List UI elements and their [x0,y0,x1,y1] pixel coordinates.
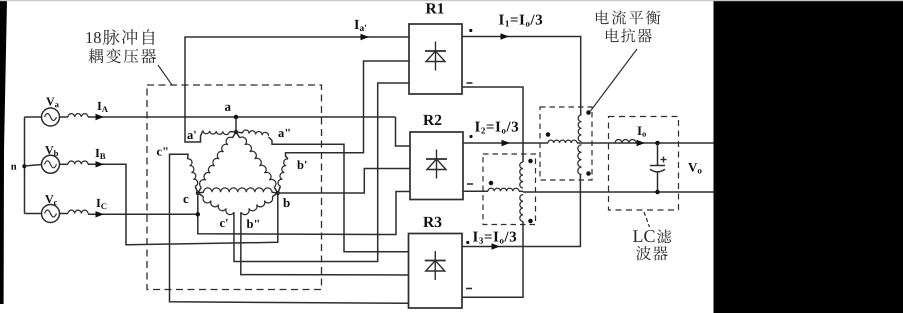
current Io label [637,126,646,136]
current IB label [95,149,105,159]
wire IC phase C to node c [88,213,198,215]
rectifier R1 box with diode [409,24,462,94]
winding delta side a-c [198,132,236,193]
LC filter label line 1 [633,229,671,243]
tap a' label [187,131,195,139]
wire tap a' to top bus [185,37,409,142]
wire positive DC rail [582,142,714,144]
capacitor C [650,143,665,192]
current Ia' label [354,20,366,31]
wire node c to R2 [198,192,410,235]
balance reactor label line 1 [596,10,661,24]
rectifier R2 box with diode [410,132,463,200]
R3 plus mark [466,241,469,244]
winding delta side a-b [236,132,278,193]
transformer label pointer line [158,65,172,85]
inductor Lc [68,210,88,213]
balance reactor 2 polarity dots [489,159,533,224]
node n junction dot [22,164,26,168]
wire IB phase B to node b [88,164,278,245]
LC filter label line 2 [636,246,668,260]
LC filter dashed box [609,117,679,211]
balance reactor 1 polarity dots [546,110,591,176]
wire IA phase A [88,116,396,118]
scan black region right side [714,0,903,313]
R1 plus mark [469,29,472,32]
wire node b to R2 [278,169,410,194]
rectifier R2 label [423,115,441,125]
wire negative DC rail [523,191,714,193]
source Vb label [45,146,58,156]
source Va label [46,97,59,107]
balance reactor 2 vertical winding lower [520,195,523,222]
current Io arrow [637,140,646,146]
source Va wires [25,116,69,118]
tap c'' label [157,147,168,155]
current IC arrow [96,211,105,217]
wire R3 negative output [462,222,523,298]
balance reactor 1 vertical winding lower [578,145,582,175]
winding tap b' [278,159,288,193]
inductor La [68,114,88,117]
current I1 arrow [501,33,510,39]
balance reactor 2 dashed box [483,154,536,225]
current I3 label [473,232,516,244]
R2 plus mark [469,135,472,138]
LC filter label pointer [644,212,650,227]
source Vc circle [42,205,60,223]
18-pulse autotransformer dashed box [147,85,322,290]
capacitor junction dot top [655,141,660,146]
node c label [183,197,188,203]
balance reactor label line 2 [606,28,652,42]
wire tap b'' bus to R3 [241,212,409,275]
output Vo label [688,163,701,174]
delta junction dots [196,130,280,195]
rectifier R3 label [423,217,441,227]
R3 minus mark [466,288,472,290]
capacitor junction dot bottom [655,190,660,195]
R1 minus mark [467,82,473,84]
winding tap c'' [188,159,198,193]
wire R2 positive output [463,142,548,144]
rectifier R1 label [426,3,444,13]
node a label [225,105,231,111]
inductor Lb [68,161,88,164]
source Vb wires [25,164,69,166]
winding tap b'' [241,193,278,215]
current I1 label [499,15,542,27]
winding tap c' [198,193,234,215]
LC filter inductor [615,140,636,144]
source Vc wires [25,213,69,215]
wire R1 positive output [462,37,581,116]
winding tap a'' [236,130,269,136]
balance reactor pointer line [591,49,638,111]
wire tap a'' bus to R3 [269,137,409,252]
node b label [283,198,290,207]
balance reactor 1 dashed box [540,107,592,180]
balance reactor 1 horizontal winding [548,140,582,143]
current IB arrow [96,161,105,167]
node n vertical rail [24,117,26,214]
balance reactor 1 vertical winding upper [578,115,581,141]
wire node a stub [235,117,237,132]
wire node a to R2 [396,117,411,146]
source Va circle [42,108,60,126]
current Ia' arrow [361,34,370,40]
source Vc label [45,195,57,205]
wire R2 negative output [463,190,488,192]
tap a'' label [278,129,289,137]
balance reactor 2 horizontal winding [488,188,523,191]
current I2 arrow [502,140,511,146]
balance reactor 2 vertical winding upper [520,162,523,188]
scan gray top hairline [0,0,903,1]
transformer label line 1 (18 pulse auto) [86,29,154,45]
scan black bar left edge [0,0,7,304]
current IA label [97,102,108,112]
current IA arrow [96,114,105,120]
current I3 arrow [492,243,501,249]
rectifier R3 box with diode [409,234,463,309]
winding delta side c-b [198,188,278,193]
node a junction dot [234,115,239,120]
wire tap b' bus to R1 [286,61,410,159]
current IC label [96,199,106,209]
tap b'' label [247,219,259,228]
R2 minus mark [467,183,473,185]
capacitor plus mark [661,157,667,163]
source Vb circle [42,155,60,173]
current I2 label [475,122,518,134]
transformer label line 2 (coupled transformer) [88,48,156,63]
node c / IC junction dot [196,212,201,217]
wire tap c' bus to R1 [234,83,409,262]
wire R3 positive output [462,175,580,247]
tap c' label [220,219,228,227]
winding tap a' [203,131,236,135]
wire tap c'' bus to R3 [170,154,409,303]
node n label [11,165,16,170]
tap b' label [297,160,306,169]
wire R1 negative output [462,87,523,162]
